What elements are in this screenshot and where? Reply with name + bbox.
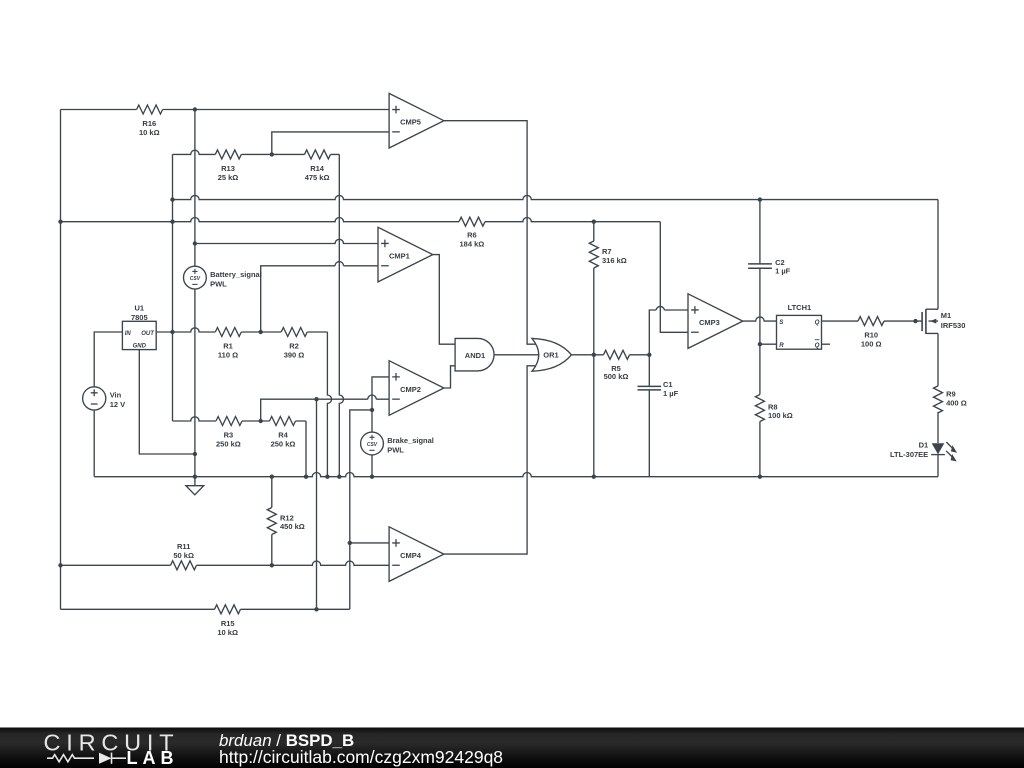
svg-text:CSV: CSV: [190, 276, 201, 282]
svg-text:Vin: Vin: [110, 390, 122, 399]
resistor R4: [270, 417, 296, 449]
svg-text:U1: U1: [135, 304, 145, 313]
junction R6 row / U1 out column: [170, 220, 174, 224]
csv source Brake_signal: [361, 432, 434, 455]
svg-text:CMP5: CMP5: [400, 118, 421, 127]
wire Brake + to CMP4 + and R15 row: [350, 410, 372, 609]
svg-text:R16: R16: [142, 119, 156, 128]
op-amp CMP3: [688, 294, 743, 349]
svg-text:7805: 7805: [131, 313, 148, 322]
resistor R13: [215, 150, 241, 182]
svg-text:AND1: AND1: [465, 351, 485, 360]
op-amp CMP4: [389, 527, 444, 582]
wire CMP4 output to OR1 input C: [444, 366, 538, 554]
wire CMP1 output to AND1 input A: [433, 255, 455, 345]
sr-latch LTCH1: [777, 303, 822, 349]
svg-text:R15: R15: [221, 619, 235, 628]
svg-text:110 Ω: 110 Ω: [218, 351, 238, 360]
junction ground / R14 column: [337, 475, 341, 479]
junction R12 bottom / R11 row: [270, 563, 274, 567]
svg-text:100 kΩ: 100 kΩ: [768, 411, 793, 420]
wire CMP5 output to OR1 input A: [444, 121, 538, 345]
wire LTCH1 Qbar stub: [822, 343, 831, 345]
svg-text:CMP2: CMP2: [400, 385, 421, 394]
resistor R8: [755, 344, 792, 477]
junction C2 / R8 / LTCH1 R: [758, 342, 762, 346]
or-gate OR1: [532, 338, 572, 371]
svg-text:Brake_signal: Brake_signal: [387, 436, 434, 445]
wire U1 GND to ground: [139, 350, 195, 454]
footer title brduan / BSPD_B: [219, 731, 354, 750]
svg-text:R4: R4: [278, 431, 288, 440]
svg-text:CMP3: CMP3: [699, 318, 720, 327]
resistor R6: [459, 217, 485, 249]
junction M1 gate node: [913, 319, 917, 323]
wire left feedback bus: [60, 110, 62, 610]
svg-text:R10: R10: [864, 331, 878, 340]
svg-text:http://circuitlab.com/czg2xm92: http://circuitlab.com/czg2xm92429q8: [219, 747, 503, 767]
junction ground / R2 column: [325, 475, 329, 479]
wire battery - to ground: [194, 289, 196, 477]
junction left bus / R11 row: [58, 563, 62, 567]
svg-text:CMP1: CMP1: [389, 252, 410, 261]
op-amp CMP1: [378, 227, 433, 282]
svg-text:1 µF: 1 µF: [775, 267, 791, 276]
wire Vin - to ground: [93, 410, 95, 477]
wire battery + column: [194, 110, 196, 267]
footer url: [219, 747, 503, 767]
wire CMP2 - row from R3-R4 junction: [261, 395, 389, 421]
resistor R1: [215, 328, 241, 360]
junction R5 / C1 / CMP3 + column: [647, 353, 651, 357]
svg-text:OUT: OUT: [141, 331, 155, 337]
resistor R14: [305, 150, 331, 182]
svg-text:IN: IN: [125, 331, 132, 337]
wire CMP1 + input row: [195, 239, 378, 243]
wire OR1 output / R5 row: [572, 354, 650, 356]
resistor R12: [267, 477, 304, 566]
svg-text:GND: GND: [133, 344, 147, 350]
junction ground / Brake -: [370, 475, 374, 479]
svg-text:LAB: LAB: [127, 748, 179, 768]
wire C2 top: [759, 200, 761, 264]
junction U1 GND / battery column: [193, 452, 197, 456]
svg-text:50 kΩ: 50 kΩ: [173, 551, 194, 560]
svg-text:25 kΩ: 25 kΩ: [218, 173, 239, 182]
nmos M1: [922, 309, 965, 334]
and-gate AND1: [455, 338, 494, 371]
svg-text:R13: R13: [221, 164, 235, 173]
svg-text:LTCH1: LTCH1: [788, 303, 812, 312]
logo LAB: [127, 748, 179, 768]
svg-text:1 µF: 1 µF: [663, 389, 679, 398]
svg-text:R: R: [779, 342, 784, 349]
junction R1-R2 / CMP1 - column: [259, 330, 263, 334]
wire LTCH1 Q to R10: [822, 320, 859, 322]
junction R6 row / R7 top: [592, 220, 596, 224]
svg-text:D1: D1: [919, 441, 929, 450]
wire R10 to M1 gate: [884, 320, 922, 322]
wire C2 bottom / LTCH1 R row: [760, 268, 777, 344]
wire ground bus: [94, 473, 938, 477]
svg-text:Q: Q: [815, 319, 820, 326]
wire CMP1 - input from R1-R2 junction: [261, 262, 378, 332]
junction node R16/battery top: [193, 107, 197, 111]
svg-text:10 kΩ: 10 kΩ: [139, 128, 160, 137]
wire CMP3 output to LTCH1 S: [743, 317, 777, 321]
junction R3-R4 junction: [259, 419, 263, 423]
capacitor C1: [638, 355, 679, 477]
regulator U1 7805: [122, 304, 156, 350]
wire Vin + to U1 IN: [94, 332, 122, 387]
junction ground / R8 bottom: [758, 475, 762, 479]
wire R14 right to ground bus: [339, 154, 343, 476]
svg-text:10 kΩ: 10 kΩ: [217, 628, 238, 637]
wire CMP2 - node to R15 row: [316, 399, 318, 609]
junction Brake branch / CMP4 + row: [348, 541, 352, 545]
wire CMP4 + input: [350, 542, 389, 544]
op-amp CMP2: [389, 361, 444, 416]
svg-text:OR1: OR1: [543, 351, 558, 360]
ground symbol: [186, 477, 204, 495]
junction ground / R4 column: [304, 475, 308, 479]
junction R15 row / CMP2- column: [314, 607, 318, 611]
junction ground / R12 top: [270, 475, 274, 479]
junction ground / R7 column: [592, 475, 596, 479]
wire 5V rail lower (R6 row): [61, 218, 661, 222]
svg-text:R14: R14: [310, 164, 325, 173]
junction CMP2 - row / R15 column: [314, 397, 318, 401]
svg-text:C2: C2: [775, 258, 785, 267]
svg-text:Battery_signal: Battery_signal: [210, 270, 262, 279]
svg-text:R1: R1: [223, 342, 233, 351]
logo squiggle resistor-diode: [47, 753, 126, 764]
svg-text:316 kΩ: 316 kΩ: [602, 256, 627, 265]
junction U1 out column / R1 row: [170, 330, 174, 334]
junction Brake + tap: [370, 408, 374, 412]
wire R11 row / CMP4 - input: [61, 561, 390, 565]
junction R13-R14 tap: [270, 152, 274, 156]
resistor R7: [589, 222, 626, 355]
wire Vplus top rail (R16 row to CMP5 +): [61, 109, 390, 111]
svg-text:250 kΩ: 250 kΩ: [216, 440, 241, 449]
svg-text:M1: M1: [941, 311, 951, 320]
wire CMP5 - input from R13-R14 tap: [272, 132, 389, 155]
junction 5V rail / U1 out column: [170, 197, 174, 201]
svg-text:Q: Q: [815, 342, 820, 349]
wire 5V rail upper (to M1 drain branch): [173, 195, 939, 199]
resistor R3: [216, 417, 242, 449]
footer bar: [0, 728, 1024, 768]
svg-text:R3: R3: [224, 431, 234, 440]
svg-text:R9: R9: [946, 390, 956, 399]
svg-text:PWL: PWL: [387, 445, 404, 454]
wire CMP2 + / Brake + column: [372, 377, 389, 432]
svg-text:R7: R7: [602, 247, 612, 256]
svg-text:390 Ω: 390 Ω: [284, 351, 305, 360]
wire R4 right to ground bus: [305, 421, 307, 477]
svg-text:R11: R11: [177, 542, 190, 551]
svg-text:R2: R2: [289, 342, 299, 351]
svg-text:R8: R8: [768, 402, 778, 411]
resistor R15: [215, 605, 241, 637]
voltage source Vin: [83, 387, 126, 410]
resistor R9: [934, 386, 967, 413]
wire AND1 output to OR1 input B: [494, 354, 539, 356]
wire R3 row: [173, 417, 307, 421]
svg-text:12 V: 12 V: [110, 400, 125, 409]
svg-text:R6: R6: [467, 231, 477, 240]
wire CMP3 + input from C1 node: [649, 306, 688, 354]
svg-text:250 kΩ: 250 kΩ: [271, 440, 296, 449]
wire CMP3 - input from R6/R7 node: [660, 222, 688, 333]
svg-text:500 kΩ: 500 kΩ: [604, 372, 629, 381]
svg-text:C1: C1: [663, 380, 673, 389]
resistor R2: [281, 328, 307, 360]
svg-text:R12: R12: [280, 513, 294, 522]
resistor R16: [137, 105, 163, 137]
wire M1 source to R9: [937, 333, 939, 386]
svg-text:450 kΩ: 450 kΩ: [280, 522, 305, 531]
svg-text:475 kΩ: 475 kΩ: [305, 173, 330, 182]
wire D1 cathode to ground bus: [937, 455, 939, 477]
resistor R11: [171, 542, 197, 570]
wire 5V rail to M1 drain: [937, 200, 939, 310]
junction 5V rail / C2 column: [758, 197, 762, 201]
svg-text:PWL: PWL: [210, 279, 227, 288]
wire R7 column to ground bus: [593, 355, 595, 477]
junction ground / battery column: [193, 475, 197, 479]
wire R13/R14 row: [173, 150, 340, 154]
svg-text:CMP4: CMP4: [400, 551, 422, 560]
led D1: [890, 441, 957, 462]
svg-text:184 kΩ: 184 kΩ: [460, 240, 485, 249]
csv source Battery_signal: [184, 266, 262, 289]
svg-text:IRF530: IRF530: [941, 321, 966, 330]
wire R9 to D1: [937, 412, 939, 443]
resistor R10: [858, 317, 884, 349]
wire R2 right to ground bus: [327, 332, 331, 477]
junction left bus / R6 row: [58, 220, 62, 224]
logo CIRCUIT: [44, 729, 180, 755]
wire R15 row: [61, 608, 350, 610]
op-amp CMP5: [389, 93, 444, 148]
junction R7 bottom / R5 row: [592, 353, 596, 357]
wire CMP2 output to AND1 input B: [444, 366, 455, 388]
svg-text:CSV: CSV: [367, 442, 378, 448]
svg-text:LTL-307EE: LTL-307EE: [890, 450, 928, 459]
resistor R5: [604, 350, 630, 381]
wire Brake - to ground: [371, 455, 373, 477]
svg-text:400 Ω: 400 Ω: [946, 399, 967, 408]
wire U1 OUT / R1 / R2 row: [156, 328, 327, 332]
junction battery + / CMP1 + row: [193, 241, 197, 245]
svg-text:100 Ω: 100 Ω: [861, 340, 882, 349]
wire U1 output node column: [172, 154, 174, 421]
capacitor C2: [748, 258, 791, 276]
